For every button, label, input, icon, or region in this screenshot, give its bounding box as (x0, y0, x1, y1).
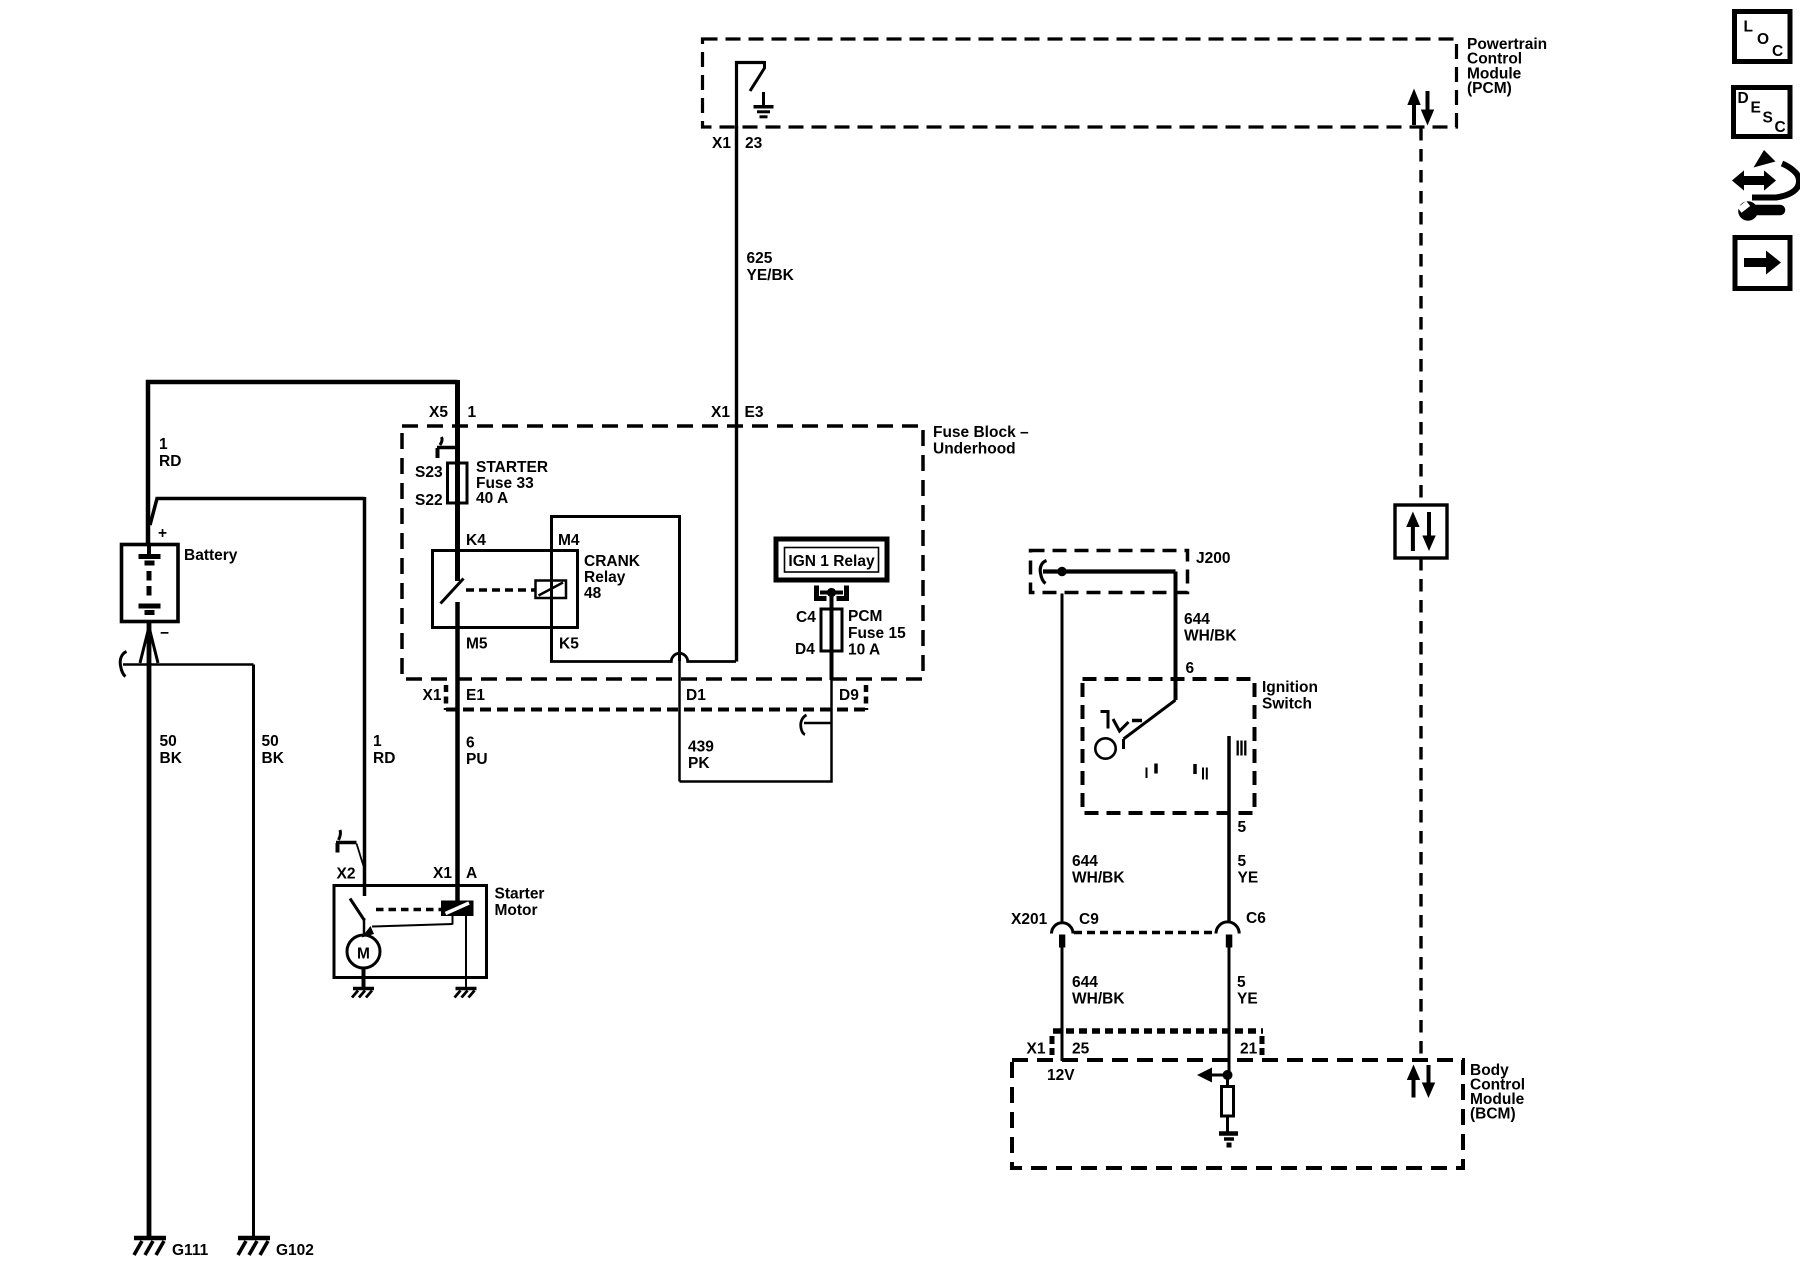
svg-text:RD: RD (373, 750, 395, 767)
svg-text:PCM: PCM (848, 608, 882, 625)
svg-text:(BCM): (BCM) (1470, 1106, 1516, 1123)
svg-text:E3: E3 (745, 404, 764, 421)
svg-text:O: O (1757, 31, 1769, 48)
svg-text:D: D (1738, 90, 1749, 107)
svg-text:Starter: Starter (495, 886, 545, 903)
svg-text:S23: S23 (415, 464, 443, 481)
svg-text:BK: BK (160, 750, 183, 767)
svg-text:X1: X1 (711, 404, 730, 421)
svg-text:X201: X201 (1011, 911, 1048, 928)
svg-text:50: 50 (262, 733, 279, 750)
svg-text:Switch: Switch (1262, 696, 1312, 713)
svg-text:40 A: 40 A (476, 490, 508, 507)
svg-text:YE/BK: YE/BK (747, 267, 795, 284)
svg-text:1: 1 (373, 733, 382, 750)
svg-text:C4: C4 (796, 609, 816, 626)
svg-text:WH/BK: WH/BK (1072, 870, 1125, 887)
svg-text:625: 625 (747, 250, 773, 267)
svg-text:G102: G102 (276, 1242, 314, 1259)
svg-text:Fuse 15: Fuse 15 (848, 625, 906, 642)
svg-text:M: M (357, 946, 370, 963)
svg-text:12V: 12V (1047, 1067, 1075, 1084)
svg-text:S22: S22 (415, 492, 443, 509)
svg-text:A: A (466, 865, 477, 882)
svg-text:RD: RD (159, 453, 181, 470)
svg-text:+: + (158, 525, 167, 542)
svg-text:D9: D9 (839, 687, 859, 704)
svg-text:BK: BK (262, 750, 285, 767)
svg-text:5: 5 (1238, 819, 1247, 836)
svg-text:6: 6 (1186, 660, 1195, 677)
svg-text:Fuse Block –: Fuse Block – (933, 424, 1029, 441)
svg-text:1: 1 (468, 404, 477, 421)
svg-text:1: 1 (159, 436, 168, 453)
svg-text:Motor: Motor (495, 902, 538, 919)
svg-text:X1: X1 (1027, 1041, 1046, 1058)
svg-text:48: 48 (584, 585, 602, 602)
svg-text:M4: M4 (558, 532, 580, 549)
svg-text:21: 21 (1240, 1041, 1258, 1058)
svg-text:D1: D1 (686, 687, 706, 704)
svg-text:X1: X1 (423, 687, 442, 704)
svg-text:K5: K5 (559, 636, 579, 653)
svg-text:J200: J200 (1196, 550, 1230, 567)
svg-text:IGN 1 Relay: IGN 1 Relay (788, 553, 875, 570)
svg-text:X1: X1 (712, 135, 731, 152)
svg-text:50: 50 (160, 733, 177, 750)
svg-text:C: C (1772, 43, 1783, 60)
svg-text:23: 23 (745, 135, 763, 152)
svg-text:WH/BK: WH/BK (1184, 628, 1237, 645)
svg-text:C6: C6 (1246, 910, 1266, 927)
svg-text:M5: M5 (466, 636, 488, 653)
svg-text:(PCM): (PCM) (1467, 80, 1512, 97)
svg-text:Underhood: Underhood (933, 441, 1016, 458)
svg-text:S: S (1763, 110, 1773, 127)
svg-text:X1: X1 (433, 865, 452, 882)
svg-text:K4: K4 (466, 532, 486, 549)
svg-text:−: − (160, 625, 169, 642)
svg-text:Relay: Relay (584, 569, 626, 586)
svg-text:644: 644 (1072, 974, 1098, 991)
svg-text:YE: YE (1238, 870, 1259, 887)
svg-text:Battery: Battery (184, 547, 238, 564)
svg-text:STARTER: STARTER (476, 459, 548, 476)
svg-text:C: C (1775, 119, 1786, 136)
svg-text:CRANK: CRANK (584, 553, 641, 570)
svg-text:C9: C9 (1079, 911, 1099, 928)
svg-text:X2: X2 (337, 866, 356, 883)
svg-text:E1: E1 (466, 687, 485, 704)
svg-text:G111: G111 (172, 1242, 209, 1259)
svg-text:Ignition: Ignition (1262, 679, 1318, 696)
svg-text:L: L (1744, 19, 1753, 36)
svg-text:644: 644 (1072, 853, 1098, 870)
svg-text:PK: PK (688, 755, 710, 772)
svg-text:25: 25 (1072, 1041, 1090, 1058)
svg-text:10 A: 10 A (848, 642, 880, 659)
svg-text:439: 439 (688, 739, 714, 756)
svg-text:D4: D4 (795, 641, 815, 658)
svg-text:PU: PU (466, 751, 488, 768)
svg-text:YE: YE (1237, 991, 1258, 1008)
svg-text:5: 5 (1238, 853, 1247, 870)
svg-text:E: E (1751, 100, 1761, 117)
svg-text:WH/BK: WH/BK (1072, 991, 1125, 1008)
svg-text:5: 5 (1237, 974, 1246, 991)
svg-text:X5: X5 (429, 404, 448, 421)
svg-text:644: 644 (1184, 611, 1210, 628)
svg-text:6: 6 (466, 735, 475, 752)
